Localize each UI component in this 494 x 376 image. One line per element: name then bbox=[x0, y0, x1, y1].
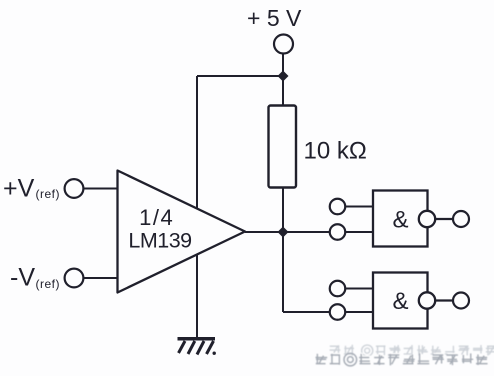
svg-text:&: & bbox=[392, 207, 408, 234]
svg-text:(ref): (ref) bbox=[36, 187, 61, 201]
svg-text:(ref): (ref) bbox=[36, 277, 61, 291]
svg-text:-V: -V bbox=[10, 264, 35, 292]
svg-text:+ 5 V: + 5 V bbox=[247, 5, 302, 31]
svg-text:+V: +V bbox=[3, 175, 35, 203]
svg-text:&: & bbox=[392, 288, 408, 315]
svg-text:1/4: 1/4 bbox=[139, 205, 174, 230]
svg-text:10 kΩ: 10 kΩ bbox=[304, 138, 367, 165]
svg-text:LM139: LM139 bbox=[128, 229, 191, 253]
